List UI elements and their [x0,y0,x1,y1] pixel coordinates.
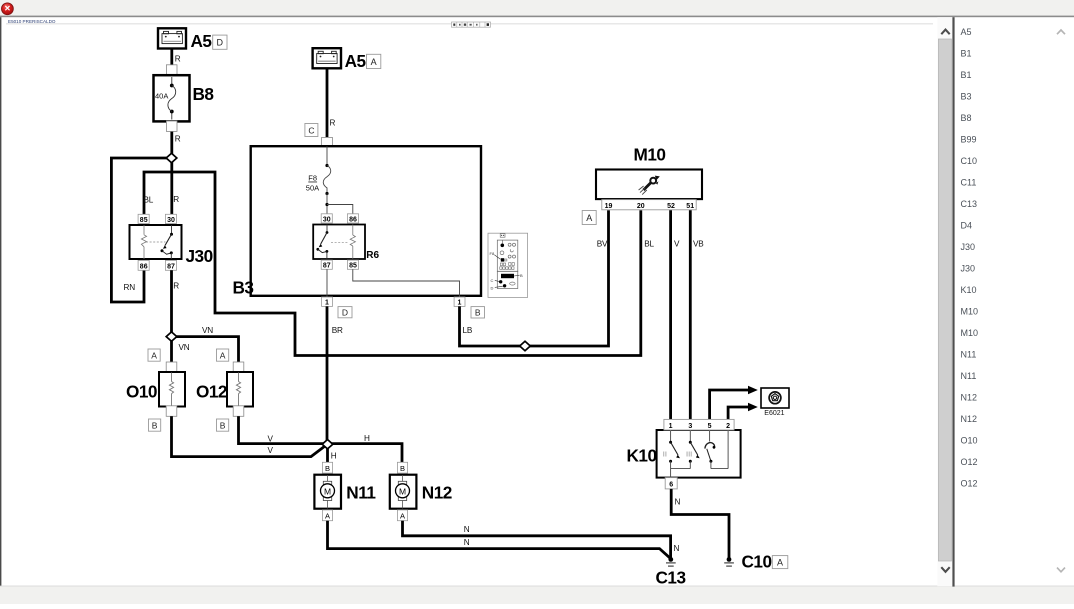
svg-text:N: N [675,498,681,507]
svg-text:A: A [325,511,330,520]
K10 pin strip 1 3 5 2 [664,419,734,430]
M10 pin strip 19 20 52 51 [602,200,696,210]
svg-text:D: D [217,38,224,48]
svg-text:B: B [400,464,405,473]
svg-text:N11: N11 [346,483,376,503]
svg-text:30: 30 [323,216,331,223]
B3 pin 1 (B) [454,297,465,307]
svg-text:B: B [325,464,330,473]
letter box D (battery A5) [213,35,227,49]
wire VB M10 pin 51 to K10 pin 3 [690,210,704,419]
svg-text:A: A [400,511,405,520]
N12 pin B [397,462,407,473]
svg-text:LB: LB [463,326,473,335]
svg-text:VB: VB [693,240,704,249]
svg-text:BV: BV [597,240,608,249]
svg-text:D: D [491,285,494,290]
svg-text:C13: C13 [656,568,686,588]
svg-text:6: 6 [669,481,673,488]
svg-text:51: 51 [686,203,694,210]
title bar [0,0,1074,17]
svg-text:52: 52 [667,203,675,210]
svg-text:J30: J30 [961,242,976,252]
wire V O10 to H diamond [172,416,327,456]
motor N11 [314,475,376,509]
svg-text:K10: K10 [627,446,657,466]
svg-text:R: R [173,282,179,291]
svg-text:O10: O10 [126,382,157,402]
fuse B8 40A [154,75,215,121]
svg-text:N11: N11 [961,371,977,381]
junction diamond node (VN splice) [166,332,177,341]
svg-text:M: M [399,486,406,496]
svg-text:2: 2 [726,423,730,430]
wire R battery A5 to fuse B8 [166,49,180,77]
svg-text:E5010 PRERISCALDO: E5010 PRERISCALDO [8,19,56,24]
svg-text:H: H [331,451,337,460]
svg-text:R6: R6 [366,250,379,261]
control unit box B3 [233,146,482,297]
junction diamond node (LB/BV splice) [520,341,531,350]
wire N K10 pin 6 to ground C10 [671,489,729,558]
wire loop diamond to J30 pin 86 [111,158,171,302]
close button [2,3,14,15]
svg-text:J30: J30 [186,246,213,266]
svg-text:C: C [491,278,494,283]
svg-text:M10: M10 [961,328,979,338]
wire R battery A5 to B3 [322,68,336,146]
junction diamond node (H splice) [322,440,333,449]
svg-text:N11: N11 [961,350,977,360]
letter box A (C10) [772,556,788,569]
motor N12 [390,475,452,509]
svg-text:R: R [175,135,181,144]
svg-text:B3: B3 [961,92,972,102]
svg-text:B8: B8 [961,113,972,123]
svg-text:C10: C10 [961,156,978,166]
wire VN diamond to O12 [172,326,239,363]
svg-text:50A: 50A [306,184,319,193]
svg-text:VN: VN [202,326,213,335]
glow plug O12 [196,362,253,416]
header tiny blue title text [8,19,56,24]
svg-text:A: A [777,557,783,567]
wire H diamond to N11 [328,444,337,462]
svg-text:86: 86 [349,216,357,223]
control unit M10 [596,145,702,200]
glow plug O10 [126,362,185,416]
svg-text:40A: 40A [155,91,168,100]
svg-text:87: 87 [167,263,175,270]
svg-text:C13: C13 [961,199,978,209]
svg-text:B3: B3 [233,278,254,298]
svg-text:1: 1 [458,300,462,307]
letter box C (B3 entry) [305,124,318,137]
svg-text:R: R [330,119,336,128]
svg-text:J30: J30 [961,264,976,274]
svg-text:×: × [4,4,10,15]
junction diamond node (R splice above J30) [166,153,177,162]
svg-text:86: 86 [140,263,148,270]
svg-text:E6021: E6021 [764,410,784,417]
inset fusebox legend [488,233,528,297]
svg-text:F8: F8 [308,174,317,183]
svg-text:H: H [364,434,370,443]
wire N N12 to ground C13 [403,521,671,558]
svg-text:87: 87 [323,263,331,270]
ground C10 [724,552,771,572]
svg-text:A: A [371,57,377,67]
svg-text:III: III [686,450,692,459]
svg-text:B1: B1 [961,49,972,59]
svg-text:5: 5 [708,423,712,430]
symbol E6021 [761,388,789,417]
R6 pin 85 [347,260,358,270]
svg-text:M10: M10 [961,307,979,317]
wire R fuse B8 to relay J30 pin 30 [166,121,180,214]
wire LB/BV B3 pin 1 B to M10 pin 19 [460,210,609,346]
wire BL J30 pin 85 to M10 pin 20 [144,172,655,356]
svg-text:RN: RN [124,283,136,292]
svg-text:B: B [152,420,158,430]
svg-text:C10: C10 [742,552,772,572]
J30 pin 86 [138,260,149,270]
R6 pin 87 [321,260,332,270]
J30 pin 85 [138,214,149,224]
svg-text:85: 85 [349,263,357,270]
header rule [6,22,933,25]
R6 pin 86 [347,214,358,224]
svg-text:V: V [268,446,274,455]
ground C13 [656,557,686,588]
svg-text:N: N [674,544,680,553]
panel scrollbar chevrons [1057,30,1065,572]
letter box D (B3 pin 1) [338,307,352,318]
svg-text:B1: B1 [961,70,972,80]
wire arrow K10 pin 5 to E6021 [710,386,758,420]
svg-text:A5: A5 [345,51,367,71]
battery A5 (D) [158,28,212,51]
svg-text:O12: O12 [961,479,978,489]
svg-text:D4: D4 [961,221,973,231]
svg-text:A: A [586,213,592,223]
letter box A (O10) [148,349,160,361]
svg-text:30: 30 [167,217,175,224]
wire R J30 pin 87 down to VN diamond [172,270,190,362]
svg-text:A5: A5 [191,31,213,51]
J30 pin 87 [165,260,176,270]
svg-text:O10: O10 [961,436,978,446]
R6 pin 30 [321,214,332,224]
svg-text:II: II [663,450,667,459]
svg-text:B: B [220,420,226,430]
svg-text:R: R [173,195,179,204]
svg-text:BL: BL [144,196,154,205]
svg-text:C11: C11 [961,178,977,188]
right component list panel [961,27,979,489]
B3 pin 1 (D) [322,297,333,307]
left window border [0,17,1,586]
svg-text:N12: N12 [961,414,978,424]
svg-text:O12: O12 [961,457,978,467]
wire arrow K10 pin 2 to E6021 [728,403,758,420]
letter box B (B3 pin 1) [471,307,485,318]
wire N N11 to ground C13 [328,521,680,559]
wire H diamond to N12 [328,434,403,462]
svg-text:N: N [464,538,470,547]
svg-text:VN: VN [179,343,190,352]
panel separator [952,17,954,586]
svg-text:N12: N12 [961,393,978,403]
svg-text:1: 1 [325,300,329,307]
letter box A (O12) [217,349,229,361]
N11 pin A [322,510,332,521]
wire BR B3 pin 1 D to H diamond [327,306,343,444]
wire V M10 pin 52 to K10 pin 1 [671,210,680,419]
svg-text:K10: K10 [961,285,977,295]
svg-text:A: A [220,350,226,360]
svg-text:20: 20 [637,203,645,210]
svg-text:N12: N12 [422,483,452,503]
relay R6 inside B3 [313,225,379,262]
pager toolbar [452,22,491,27]
svg-text:A5: A5 [961,27,972,37]
svg-text:BR: BR [332,326,343,335]
letter box A (M10) [582,211,596,225]
svg-text:19: 19 [605,203,613,210]
svg-text:B99: B99 [961,135,977,145]
svg-text:M10: M10 [634,145,666,165]
wire internal R6 85 to B3 pin 1 right [353,269,460,297]
svg-text:R: R [175,55,181,64]
svg-text:1: 1 [669,423,673,430]
letter box A (battery A5) [367,54,381,68]
wire internal R6 87 to B3 pin 1 left [326,269,328,297]
J30 pin 30 [165,214,176,224]
svg-text:M: M [324,486,331,496]
N12 pin A [397,510,407,521]
svg-text:85: 85 [140,217,148,224]
svg-text:N: N [464,525,470,534]
svg-text:A: A [151,350,157,360]
svg-text:F8: F8 [490,251,495,256]
fuse F8 50A inside B3 [306,146,353,214]
svg-text:D: D [342,307,348,317]
svg-text:BL: BL [644,240,654,249]
svg-text:V: V [674,240,680,249]
K10 pin 6 [665,478,677,489]
diagram vertical scrollbar [937,17,952,586]
letter box B (O12) [217,419,229,431]
svg-text:B: B [475,307,481,317]
svg-text:O12: O12 [196,382,227,402]
svg-text:C: C [308,125,314,135]
wire V O12 to H diamond [239,416,328,443]
svg-text:3: 3 [688,423,692,430]
svg-text:V: V [268,435,274,444]
svg-text:B: B [520,273,523,278]
bottom status bar [0,586,1074,604]
ignition switch K10 [627,430,741,478]
N11 pin B [322,462,332,473]
relay J30 [130,225,213,266]
letter box B (O10) [149,419,161,431]
battery A5 (A) [313,48,367,71]
svg-text:B8: B8 [193,84,215,104]
